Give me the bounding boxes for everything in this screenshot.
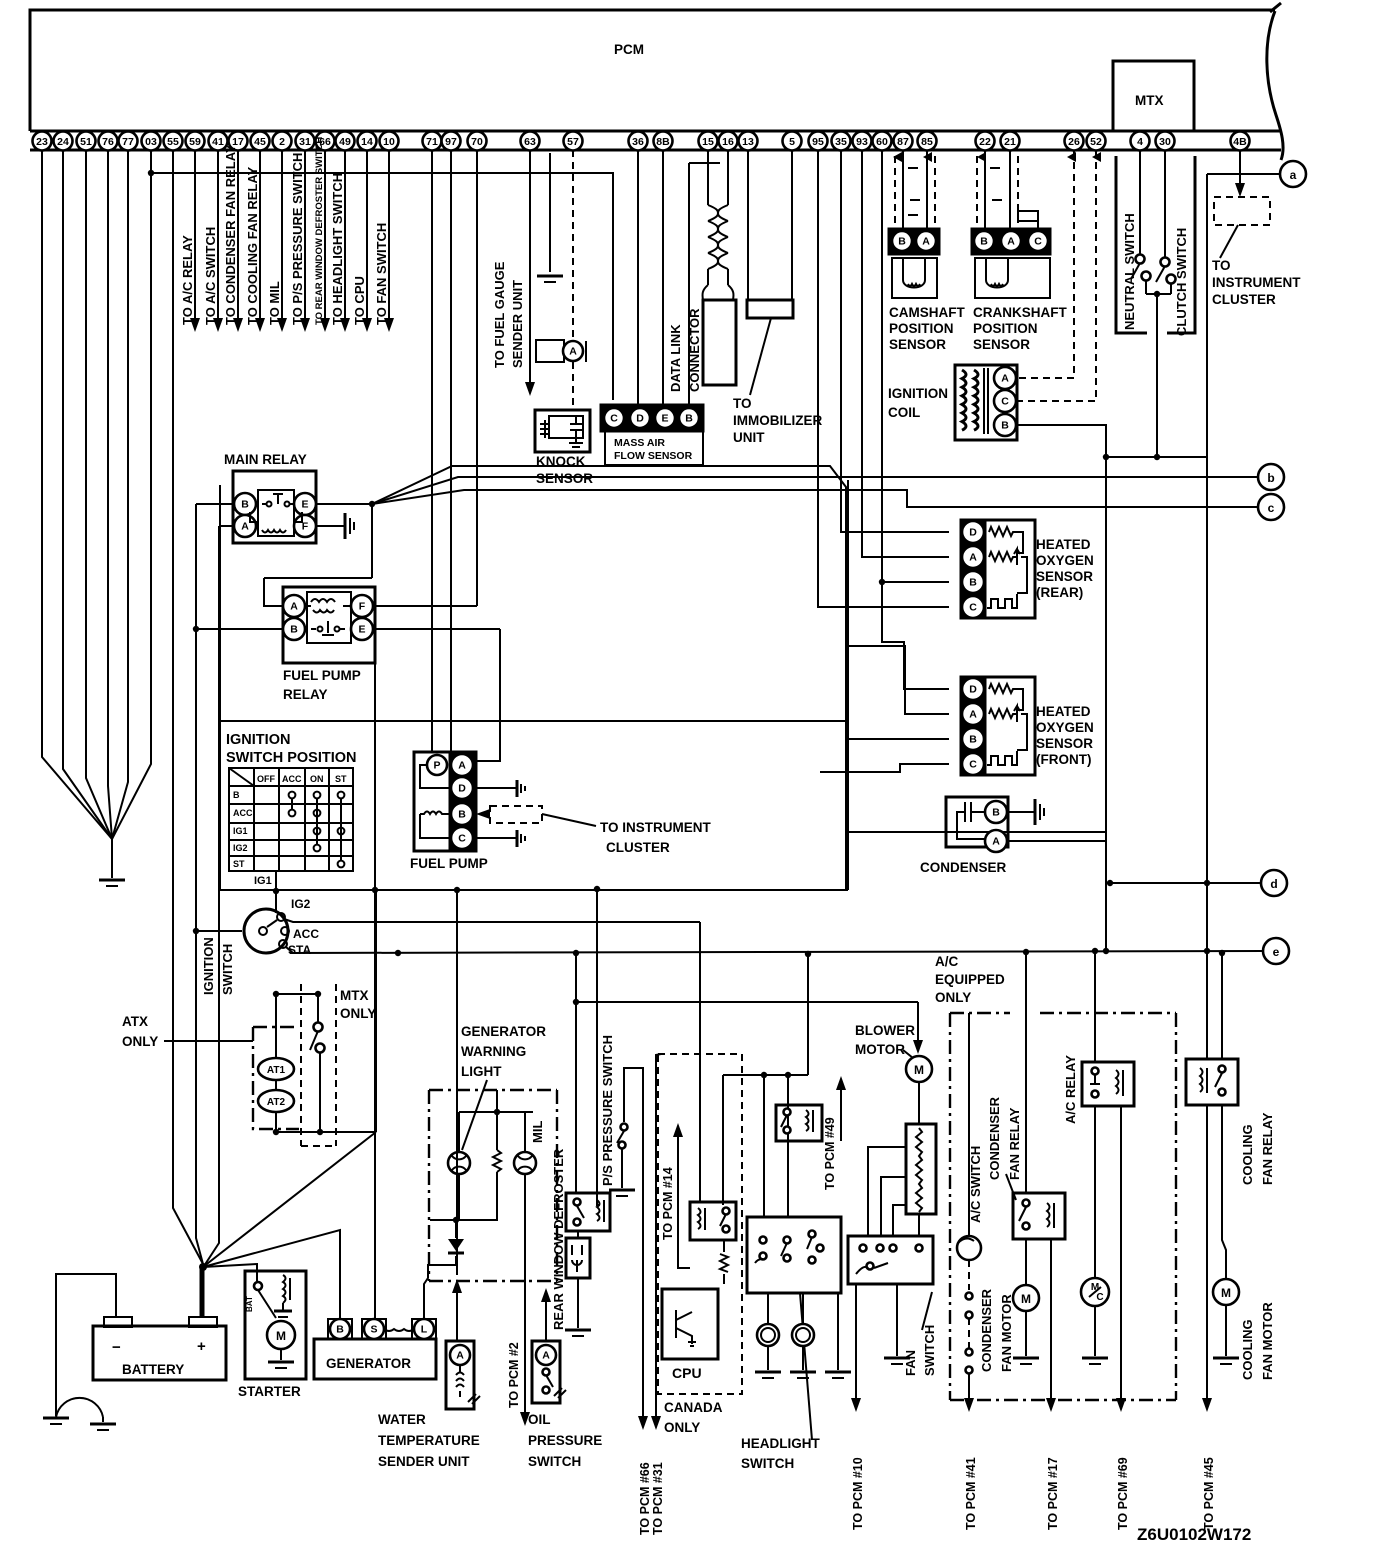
wire pin 52 to coil C dashed [1016, 150, 1096, 401]
node B junction [193, 626, 199, 632]
wire PCM pin x=151 to ground point [112, 150, 151, 839]
PCM pin 24 [54, 132, 73, 151]
wire big box left edge [219, 485, 221, 890]
ground cooling fan motor [1213, 1357, 1239, 1360]
svg-text:TO COOLING FAN RELAY: TO COOLING FAN RELAY [245, 166, 260, 325]
arrow TO P/S PRESSURE SWITCH [300, 318, 310, 332]
PCM pin 14 [358, 132, 377, 151]
PCM pin 16 [719, 132, 738, 151]
arrow to fuel gauge [525, 382, 535, 396]
svg-text:A: A [1001, 373, 1009, 385]
arrow TO HEADLIGHT SWITCH [340, 318, 350, 332]
wire pin to TO CONDENSER FAN RELAY [237, 150, 239, 318]
svg-text:STA: STA [288, 943, 311, 957]
wire AC coil down [1120, 1106, 1122, 1398]
svg-text:MOTOR: MOTOR [855, 1042, 905, 1057]
condenser [946, 797, 1008, 847]
svg-text:TO CPU: TO CPU [352, 276, 367, 325]
wire E to sensor box edge [372, 466, 846, 890]
svg-text:CPU: CPU [672, 1365, 702, 1381]
wire from node a [1207, 173, 1280, 175]
svg-text:93: 93 [856, 136, 868, 148]
svg-text:DATA LINK: DATA LINK [668, 324, 683, 392]
water temperature sender unit [446, 1341, 474, 1409]
PCM pin 31 [296, 132, 315, 151]
wire PS switch to PCM 66 [624, 1068, 643, 1416]
svg-text:(REAR): (REAR) [1036, 585, 1083, 600]
wire MIL to PCM2 [524, 1174, 526, 1412]
starter motor M [267, 1321, 295, 1349]
wire main relay B down [195, 504, 197, 629]
svg-text:TO PCM #2: TO PCM #2 [507, 1342, 521, 1408]
arrow TO REAR WINDOW DEFROSTER SWITCH [320, 318, 330, 332]
ignition switch [244, 909, 288, 953]
wire generator L [424, 1256, 456, 1319]
wire to fuel pump relay A [264, 578, 283, 606]
arrow into instrument cluster [1235, 183, 1245, 197]
MTX switch enclosure [1116, 156, 1195, 333]
wire pin to TO A/C RELAY [194, 150, 196, 318]
canada resistor [720, 1240, 728, 1284]
svg-text:TO PCM #45: TO PCM #45 [1202, 1457, 1216, 1530]
arrow to PCM 14 [673, 1123, 683, 1137]
svg-text:TO A/C SWITCH: TO A/C SWITCH [203, 227, 218, 325]
PCM pin 52 [1087, 132, 1106, 151]
arrow to PCM 49 [836, 1076, 846, 1090]
PCM pin 70 [468, 132, 487, 151]
connector A on knock sensor wire [536, 340, 564, 362]
wire pin 8B to MAF E [662, 150, 664, 408]
wire pin to TO COOLING FAN RELAY [259, 150, 261, 318]
node a [1280, 161, 1306, 187]
wire E junction down [371, 504, 373, 578]
wire jog MAF B [689, 162, 720, 164]
arrow to PCM 41 [964, 1398, 974, 1412]
arrow TO FAN SWITCH [384, 318, 394, 332]
shielded wire pin 57 to knock sensor [572, 150, 574, 340]
svg-text:IGNITION: IGNITION [888, 386, 948, 401]
wire condenser A to trunk [1007, 840, 1106, 842]
arrow to PCM 17 [1046, 1398, 1056, 1412]
svg-text:SENSOR: SENSOR [1036, 569, 1093, 584]
generator [314, 1339, 436, 1379]
wire battery to AT bus [203, 1132, 376, 1267]
node ignition switch feed [193, 928, 199, 934]
arrow oil pressure up [541, 1288, 551, 1302]
leader instrument cluster [1220, 225, 1238, 258]
PCM pin 60 [873, 132, 892, 151]
A/C relay [1082, 1062, 1134, 1106]
svg-text:POSITION: POSITION [889, 321, 954, 336]
ignition coil [955, 365, 1017, 440]
leader to instrument cluster [542, 814, 596, 826]
svg-text:TEMPERATURE: TEMPERATURE [378, 1433, 480, 1448]
PCM pin 97 [442, 132, 461, 151]
main relay [233, 471, 316, 543]
starter [245, 1271, 306, 1379]
wire to MTX switch [276, 993, 318, 995]
CPU box [662, 1289, 718, 1359]
svg-text:PRESSURE: PRESSURE [528, 1433, 602, 1448]
svg-text:TO P/S PRESSURE SWITCH: TO P/S PRESSURE SWITCH [290, 153, 305, 325]
rear window defroster relay [566, 1193, 610, 1231]
svg-text:A: A [922, 236, 930, 248]
ground fan switch [884, 1357, 910, 1360]
wire STA to e bus [286, 947, 293, 953]
svg-text:16: 16 [722, 136, 734, 148]
wire pin 4B [1239, 150, 1241, 183]
svg-text:OXYGEN: OXYGEN [1036, 553, 1094, 568]
svg-text:C: C [969, 602, 977, 614]
svg-text:SWITCH: SWITCH [528, 1454, 581, 1469]
svg-text:35: 35 [835, 136, 847, 148]
immobilizer connector box [747, 300, 793, 318]
svg-text:B: B [969, 577, 977, 589]
svg-text:10: 10 [383, 136, 395, 148]
svg-text:TO MIL: TO MIL [267, 281, 282, 325]
ground condenser fan motor [1013, 1357, 1039, 1360]
PCM pin 93 [853, 132, 872, 151]
svg-text:BATTERY: BATTERY [122, 1362, 184, 1377]
camshaft sensor connector [889, 229, 939, 254]
AC equipped dash box [950, 1013, 1176, 1400]
svg-text:CLUSTER: CLUSTER [606, 840, 670, 855]
wire trunk to defrost coil [597, 889, 600, 1205]
leader fan switch [922, 1292, 932, 1330]
svg-text:POSITION: POSITION [973, 321, 1038, 336]
node c [1258, 494, 1284, 520]
ground lamp2 [790, 1371, 816, 1374]
wire node a down [1206, 174, 1208, 457]
svg-text:−: − [112, 1339, 121, 1356]
wire big box right edge [847, 480, 849, 890]
wire main relay A left [219, 525, 234, 527]
wire lamp2 [802, 1293, 804, 1324]
PCM pin 87 [894, 132, 913, 151]
svg-text:ONLY: ONLY [664, 1420, 700, 1435]
arrow TO CONDENSER FAN RELAY [233, 318, 243, 332]
wire hl bus [723, 1074, 808, 1076]
PCM pin 21 [1001, 132, 1020, 151]
arrow to PCM 31 [651, 1416, 661, 1430]
ground defroster [565, 1329, 591, 1332]
svg-text:TO PCM #14: TO PCM #14 [661, 1167, 675, 1240]
svg-text:M: M [1221, 1286, 1231, 1300]
condenser fan relay [1013, 1193, 1065, 1239]
arrow TO MIL [277, 318, 287, 332]
svg-text:HEATED: HEATED [1036, 704, 1091, 719]
clutch switch [1164, 150, 1166, 257]
svg-text:GENERATOR: GENERATOR [326, 1356, 411, 1371]
svg-text:S: S [370, 1324, 377, 1336]
ground battery minus [43, 1417, 69, 1420]
svg-text:MAIN RELAY: MAIN RELAY [224, 452, 307, 467]
svg-text:+: + [197, 1338, 206, 1355]
ground AC clutch [1082, 1357, 1108, 1360]
svg-text:TO PCM #69: TO PCM #69 [1116, 1457, 1130, 1530]
svg-text:OXYGEN: OXYGEN [1036, 720, 1094, 735]
svg-text:LIGHT: LIGHT [461, 1064, 502, 1079]
wire to MAF B [688, 163, 690, 408]
wire main relay A to battery [204, 526, 219, 1266]
PCM pin 77 [119, 132, 138, 151]
wire bus y457 [1105, 456, 1207, 458]
oil pressure switch [532, 1341, 560, 1403]
wire pin 03 stub [150, 150, 152, 173]
wire blower bus [576, 1001, 918, 1003]
svg-text:36: 36 [632, 136, 644, 148]
svg-text:24: 24 [57, 136, 69, 148]
wire down to battery point [196, 629, 203, 1264]
svg-text:8B: 8B [656, 136, 670, 148]
wire pin 71 down to fuel pump [431, 150, 433, 752]
wire blower to resistor [918, 1082, 920, 1124]
wire fp relay B to left [196, 628, 283, 630]
wire pin to TO FAN SWITCH [388, 150, 390, 318]
svg-text:2: 2 [279, 136, 285, 148]
wire pin 60 to rear B [882, 150, 949, 582]
wire pcm14 line [678, 1137, 690, 1268]
blower resistor block [906, 1124, 936, 1214]
svg-text:IGNITION: IGNITION [226, 732, 290, 748]
svg-text:4B: 4B [1233, 136, 1247, 148]
wire to canada relay contact [722, 1075, 724, 1205]
wire into hl switch 2 [787, 1075, 789, 1217]
svg-text:EQUIPPED: EQUIPPED [935, 972, 1005, 987]
svg-text:C: C [458, 833, 466, 845]
svg-text:ACC: ACC [293, 927, 319, 941]
wire cooling motor gnd [1225, 1305, 1227, 1356]
wire main relay E [316, 503, 372, 505]
wire AT bus [276, 1131, 376, 1133]
ground (PCM grounds) [99, 879, 125, 882]
PCM pin 03 [142, 132, 161, 151]
arrow to PCM 66 [638, 1416, 648, 1430]
headlight lamps [757, 1324, 779, 1346]
svg-text:A: A [992, 836, 1000, 848]
svg-text:TO PCM #66: TO PCM #66 [638, 1462, 652, 1535]
svg-text:A: A [458, 760, 466, 772]
svg-text:PCM: PCM [614, 42, 644, 57]
svg-text:SENSOR: SENSOR [889, 337, 946, 352]
wire right trunk down [1206, 457, 1208, 1059]
PCM pin 4B [1231, 132, 1250, 151]
rail joint arrows [893, 152, 902, 162]
wire to PCM 31 [656, 1054, 661, 1416]
wire relay to motor [1025, 1239, 1027, 1285]
PCM pin 13 [739, 132, 758, 151]
svg-text:B: B [898, 236, 906, 248]
wire STA to defrost relay [575, 953, 577, 1193]
svg-text:B: B [458, 809, 466, 821]
svg-text:INSTRUMENT: INSTRUMENT [1212, 275, 1301, 290]
svg-text:E: E [301, 499, 308, 511]
svg-text:ACC: ACC [282, 774, 302, 784]
PCM pin 41 [209, 132, 228, 151]
svg-text:TO HEADLIGHT SWITCH: TO HEADLIGHT SWITCH [330, 173, 345, 325]
svg-text:B: B [980, 236, 988, 248]
knock sensor [535, 410, 590, 452]
svg-text:51: 51 [80, 136, 92, 148]
svg-text:FUEL PUMP: FUEL PUMP [410, 856, 488, 871]
svg-text:C: C [1001, 396, 1009, 408]
svg-text:B: B [241, 499, 249, 511]
svg-text:SWITCH: SWITCH [741, 1456, 794, 1471]
wire pin to TO MIL [281, 150, 283, 318]
svg-text:4: 4 [1137, 136, 1143, 148]
svg-text:97: 97 [445, 136, 457, 148]
resistor R (warning) [493, 1150, 501, 1172]
wire main relay F [316, 525, 345, 527]
wire diode to lamp bus [455, 1220, 457, 1238]
wire PCM pin x=108 to ground point [108, 150, 112, 839]
svg-text:03: 03 [145, 136, 157, 148]
node pin03 junction [148, 170, 154, 176]
svg-text:E: E [358, 624, 365, 636]
ground (sensor shield) [537, 275, 563, 278]
svg-text:23: 23 [36, 136, 48, 148]
wire into hl switch 1 [763, 1075, 765, 1217]
svg-text:B: B [685, 413, 693, 425]
wire pin 13 to immobilizer [747, 150, 749, 300]
svg-text:HEADLIGHT: HEADLIGHT [741, 1436, 820, 1451]
wire lamp bottom [458, 1174, 460, 1220]
wire to PCM 10 [855, 1284, 857, 1398]
svg-text:MIL: MIL [530, 1121, 545, 1143]
svg-text:CANADA: CANADA [664, 1400, 723, 1415]
PCM pin 10 [380, 132, 399, 151]
svg-text:COOLING: COOLING [1240, 1124, 1255, 1185]
svg-text:B: B [336, 1324, 344, 1336]
wire pin 93 to rear A [862, 150, 949, 557]
svg-text:B: B [969, 734, 977, 746]
node e [1263, 938, 1289, 964]
wire pin to TO HEADLIGHT SWITCH [344, 150, 346, 318]
svg-text:31: 31 [299, 136, 311, 148]
svg-text:60: 60 [876, 136, 888, 148]
svg-text:L: L [421, 1324, 428, 1336]
A/C magnetic clutch [1081, 1278, 1109, 1306]
wire resistor tap1 [868, 1147, 906, 1236]
svg-text:AT2: AT2 [267, 1097, 286, 1108]
svg-text:63: 63 [524, 136, 536, 148]
svg-text:SWITCH: SWITCH [220, 944, 235, 995]
svg-text:GENERATOR: GENERATOR [461, 1024, 546, 1039]
svg-text:IMMOBILIZER: IMMOBILIZER [733, 413, 822, 428]
battery plus wire [200, 1268, 205, 1317]
p/s pressure switch [621, 1124, 628, 1131]
svg-text:TO: TO [733, 396, 752, 411]
wire cooling relay to motor [1222, 1105, 1226, 1279]
canada only dashed box [658, 1054, 742, 1394]
relay to PCM 49 [776, 1105, 822, 1141]
ATX only dashed box [253, 1027, 299, 1129]
canada DRL relay [690, 1202, 736, 1240]
rear window defroster grid [566, 1238, 590, 1278]
PCM pin 22 [976, 132, 995, 151]
svg-text:TO PCM #41: TO PCM #41 [964, 1457, 978, 1530]
svg-text:A: A [456, 1350, 464, 1362]
svg-text:BLOWER: BLOWER [855, 1023, 915, 1038]
svg-text:SENDER UNIT: SENDER UNIT [378, 1454, 470, 1469]
ground lamp1 [755, 1371, 781, 1374]
PCM pin 85 [918, 132, 937, 151]
arrow into blower [913, 1040, 923, 1054]
wire fp relay F right [373, 605, 477, 607]
wire main relay B left [196, 503, 234, 505]
wire AT1 to AT2 [275, 1080, 277, 1090]
instrument cluster dashed box [1214, 197, 1270, 225]
svg-text:CONNECTOR: CONNECTOR [687, 308, 702, 392]
svg-text:BAT: BAT [245, 1296, 254, 1312]
svg-text:CLUSTER: CLUSTER [1212, 292, 1276, 307]
svg-text:87: 87 [897, 136, 909, 148]
svg-text:C: C [610, 413, 618, 425]
wire IG1 to switch [275, 891, 277, 913]
svg-text:D: D [458, 783, 466, 795]
wire sensor box bottom [846, 831, 1106, 833]
fuel pump [414, 752, 450, 851]
wire motor gnd [1025, 1311, 1027, 1356]
svg-text:ON: ON [310, 774, 324, 784]
wire fp relay E right [373, 628, 500, 630]
svg-text:F: F [359, 601, 366, 613]
ground main relay F [344, 513, 347, 539]
PCM pin 49 [336, 132, 355, 151]
PCM pin 63 [521, 132, 540, 151]
svg-text:45: 45 [254, 136, 266, 148]
wire resistor tap3 [893, 1205, 906, 1236]
svg-text:A: A [1007, 236, 1015, 248]
ground headlight switch [825, 1371, 851, 1374]
svg-text:IG1: IG1 [254, 875, 272, 887]
wire E to fuel pump A [476, 629, 500, 761]
leader condenser fan relay [1006, 1174, 1016, 1200]
svg-text:85: 85 [921, 136, 933, 148]
svg-text:52: 52 [1090, 136, 1102, 148]
svg-text:CONDENSER: CONDENSER [987, 1096, 1002, 1180]
svg-text:CAMSHAFT: CAMSHAFT [889, 305, 965, 320]
PCM pin 15 [699, 132, 718, 151]
svg-text:C: C [969, 759, 977, 771]
svg-text:TO PCM #10: TO PCM #10 [851, 1457, 865, 1530]
diode D1 [448, 1239, 464, 1251]
wire PCM pin x=128 to ground point [112, 150, 128, 839]
svg-text:CLUTCH SWITCH: CLUTCH SWITCH [1174, 228, 1189, 336]
svg-text:CONDENSER: CONDENSER [979, 1288, 994, 1372]
wire AC relay feed [1094, 951, 1096, 1062]
svg-text:TO PCM #17: TO PCM #17 [1046, 1457, 1060, 1530]
PCM pin 76 [99, 132, 118, 151]
svg-text:SENSOR: SENSOR [973, 337, 1030, 352]
svg-text:TO CONDENSER FAN RELAY: TO CONDENSER FAN RELAY [223, 144, 238, 325]
wire trunk x376 [375, 890, 377, 1132]
wire trunk x375 down to starter S [374, 663, 376, 1329]
svg-text:FAN RELAY: FAN RELAY [1007, 1107, 1022, 1180]
svg-text:D: D [969, 684, 977, 696]
svg-text:57: 57 [567, 136, 579, 148]
crankshaft sensor shielded wires [984, 150, 986, 229]
svg-text:59: 59 [189, 136, 201, 148]
ground starter motor [268, 1361, 294, 1364]
PCM pin 66 [316, 132, 335, 151]
svg-text:21: 21 [1004, 136, 1016, 148]
svg-text:15: 15 [702, 136, 714, 148]
wire ignition switch stub [196, 930, 242, 932]
wire common down [1156, 294, 1158, 457]
heated oxygen sensor rear [961, 520, 985, 618]
leader immobilizer [750, 318, 771, 395]
